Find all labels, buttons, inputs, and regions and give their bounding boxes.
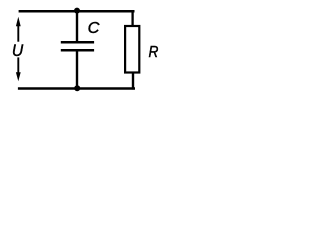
voltage arrow U lower shaft — [17, 57, 19, 74]
wire resistor bottom to bottom rail — [132, 71, 134, 89]
voltage arrow U upper shaft — [17, 25, 19, 42]
wire bottom rail — [18, 87, 135, 89]
capacitor C top plate — [61, 41, 94, 44]
svg-text:U: U — [12, 41, 24, 60]
voltage arrow U upper head — [16, 17, 21, 27]
node junction dot bottom — [74, 85, 80, 91]
svg-text:R: R — [149, 44, 159, 61]
wire capacitor top lead — [76, 11, 78, 42]
wire top rail — [19, 10, 135, 12]
node junction dot top — [74, 8, 80, 14]
voltage arrow U lower head — [16, 72, 21, 81]
capacitor C bottom plate — [61, 49, 94, 52]
background — [0, 0, 164, 100]
resistor R body — [125, 26, 139, 73]
wire capacitor bottom lead — [76, 50, 78, 88]
svg-text:C: C — [88, 20, 100, 37]
wire top-right drop to resistor — [131, 10, 133, 27]
